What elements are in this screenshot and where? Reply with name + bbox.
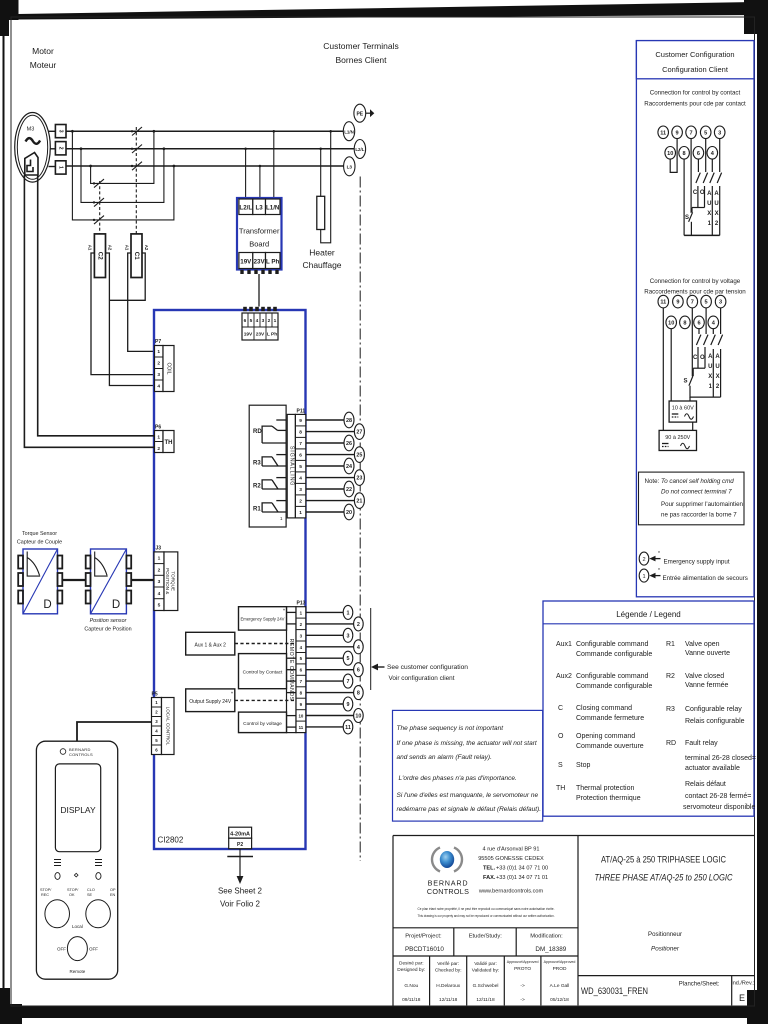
svg-text:Commande configurable: Commande configurable	[576, 683, 652, 690]
svg-text:+33 (0)1 34 07 71 00: +33 (0)1 34 07 71 00	[496, 866, 548, 872]
terminal 22	[344, 481, 354, 497]
svg-text:G.Nou: G.Nou	[404, 983, 418, 989]
svg-text:PROD: PROD	[553, 966, 567, 972]
svg-text:Raccordements pour cde par con: Raccordements pour cde par contact	[644, 101, 746, 108]
svg-text:X: X	[708, 374, 712, 380]
svg-text:2: 2	[158, 567, 161, 573]
svg-text:5: 5	[347, 656, 350, 662]
svg-text:1: 1	[158, 556, 161, 562]
svg-text:21: 21	[356, 499, 362, 505]
svg-text:6: 6	[357, 668, 360, 674]
svg-text:3: 3	[347, 633, 350, 639]
svg-text:X: X	[715, 211, 719, 217]
label Torque Sensor	[17, 531, 62, 546]
svg-text:H.Delaroux: H.Delaroux	[436, 983, 461, 989]
svg-text:10: 10	[668, 320, 674, 326]
svg-text:R2: R2	[666, 673, 675, 680]
svg-text:TH: TH	[556, 785, 565, 792]
svg-text:10: 10	[298, 713, 303, 718]
torque sensor	[18, 549, 62, 614]
svg-text:3: 3	[58, 130, 64, 133]
svg-text:A2: A2	[108, 245, 113, 251]
phase sequence note	[393, 710, 543, 821]
svg-text:POSITION &: POSITION &	[165, 568, 170, 594]
svg-text:1: 1	[347, 610, 350, 616]
svg-text:5: 5	[158, 603, 161, 609]
svg-text:->: ->	[520, 997, 525, 1003]
svg-text:A: A	[707, 191, 712, 197]
connector P5 LOCAL CONTROL	[152, 692, 175, 755]
svg-text:servomoteur disponible: servomoteur disponible	[683, 804, 755, 811]
position sensor	[86, 549, 132, 614]
svg-text:1: 1	[642, 574, 645, 580]
svg-text:P6: P6	[155, 425, 161, 431]
svg-text:24: 24	[346, 464, 352, 470]
terminal 5	[343, 651, 353, 665]
svg-text:U: U	[707, 201, 711, 207]
svg-text:Entrée alimentation de secours: Entrée alimentation de secours	[663, 575, 748, 582]
transformer pins	[240, 270, 278, 274]
svg-text:L Ph: L Ph	[267, 332, 277, 338]
svg-text:Capteur de Couple: Capteur de Couple	[17, 540, 62, 546]
svg-text:P5: P5	[152, 692, 158, 698]
svg-text:->: ->	[520, 983, 525, 989]
svg-text:95505 GONESSE CEDEX: 95505 GONESSE CEDEX	[478, 856, 544, 862]
wire sensor link	[62, 579, 85, 581]
terminal 4	[708, 316, 719, 329]
svg-text:O: O	[700, 190, 705, 196]
project row	[405, 934, 567, 954]
knob left	[40, 888, 79, 928]
svg-text:5: 5	[704, 130, 707, 136]
svg-text:Local: Local	[72, 924, 83, 929]
wire transformer L3 feed	[259, 166, 261, 198]
wire heater bottom loop	[321, 131, 331, 243]
svg-text:PE: PE	[356, 111, 363, 117]
svg-text:7: 7	[691, 300, 694, 306]
svg-text:SIGNALLING: SIGNALLING	[288, 446, 294, 486]
emergency supply terminal 1	[639, 568, 660, 582]
svg-text:ne pas raccorder la borne 7: ne pas raccorder la borne 7	[661, 512, 737, 519]
svg-text:O: O	[700, 355, 705, 361]
terminal 3	[714, 126, 725, 139]
wire C1-A2 to node	[109, 253, 145, 300]
svg-text:5: 5	[705, 300, 708, 306]
motor terminal 1	[55, 161, 66, 174]
svg-text:Aux2: Aux2	[556, 673, 572, 680]
connector J3 POSITION & TORQUE	[154, 546, 178, 611]
svg-text:9: 9	[299, 418, 302, 424]
svg-text:CLO: CLO	[87, 888, 95, 892]
terminal 10	[665, 147, 676, 160]
box Output Supply 24V	[186, 689, 296, 712]
svg-text:G.Schwebel: G.Schwebel	[473, 983, 499, 989]
contact config wiring	[670, 139, 721, 236]
svg-text:LOCAL CONTROL: LOCAL CONTROL	[165, 707, 170, 746]
svg-text:12/11/18: 12/11/18	[476, 997, 495, 1003]
svg-text:Vanne fermée: Vanne fermée	[685, 682, 729, 689]
motor terminal 3	[55, 125, 66, 138]
svg-text:4: 4	[256, 318, 259, 324]
terminal 7	[343, 674, 353, 688]
motor thermal switch symbol	[25, 153, 38, 176]
wire transformer L1/N feed	[273, 131, 275, 198]
svg-text:P7: P7	[155, 339, 161, 345]
svg-text:10 à 60V: 10 à 60V	[672, 406, 694, 412]
svg-text:2: 2	[299, 499, 302, 505]
svg-text:20: 20	[346, 510, 352, 516]
svg-text:STOP/: STOP/	[67, 888, 79, 892]
svg-text:Positionneur: Positionneur	[648, 931, 683, 938]
relay R3	[262, 455, 286, 467]
svg-text:Aux1: Aux1	[556, 641, 572, 648]
svg-text:*: *	[658, 568, 660, 574]
connector P7 COIL	[155, 339, 175, 392]
svg-text:Chauffage: Chauffage	[302, 260, 341, 270]
relay RD	[262, 420, 286, 443]
terminal PE	[354, 104, 374, 122]
svg-text:Fault relay: Fault relay	[685, 740, 718, 747]
wire position sensor to J3	[131, 579, 154, 581]
terminal 5	[700, 126, 711, 139]
svg-text:Desiné par:: Desiné par:	[399, 961, 424, 967]
svg-text:4: 4	[299, 476, 302, 482]
svg-text:Commande ouverture: Commande ouverture	[576, 743, 644, 750]
svg-text:3: 3	[157, 372, 160, 378]
contactor C2 contacts	[94, 179, 104, 233]
connector P6 TH	[155, 425, 175, 453]
svg-text:J3: J3	[156, 546, 162, 552]
supply source 90-250V	[659, 430, 696, 450]
bernard controls logo	[427, 848, 469, 897]
svg-text:C2: C2	[96, 252, 103, 260]
terminal 1	[343, 605, 353, 619]
svg-text:A.Le Gall: A.Le Gall	[550, 983, 570, 989]
svg-text:10: 10	[355, 714, 361, 720]
main board CI2802	[154, 310, 306, 849]
wire transformer L2/L feed	[245, 149, 247, 198]
display lamps	[55, 873, 60, 880]
svg-text:Configurable command: Configurable command	[576, 673, 648, 680]
svg-text:Capteur de Position: Capteur de Position	[84, 627, 131, 633]
svg-text:1: 1	[58, 166, 64, 169]
svg-text:6: 6	[299, 453, 302, 459]
emergency supply terminal 2	[639, 551, 660, 565]
svg-text:Moteur: Moteur	[30, 60, 57, 70]
signatures row	[397, 960, 575, 1003]
terminal 9	[672, 126, 683, 139]
terminal 11	[658, 126, 669, 139]
svg-text:2: 2	[58, 147, 64, 150]
relay R2	[262, 478, 286, 490]
svg-text:*: *	[658, 551, 660, 557]
svg-text:and sends an alarm (Fault rela: and sends an alarm (Fault relay).	[397, 754, 493, 761]
wires P13 to terminals	[306, 612, 354, 727]
svg-text:R2: R2	[253, 484, 261, 490]
svg-text:Heater: Heater	[309, 248, 335, 258]
svg-text:L'ordre des phases n'a pas d'i: L'ordre des phases n'a pas d'importance.	[399, 775, 517, 782]
box Control by Contact	[239, 654, 297, 693]
svg-text:R3: R3	[666, 706, 675, 713]
voltage config wiring	[663, 308, 722, 430]
svg-text:7: 7	[690, 130, 693, 136]
svg-text:5: 5	[299, 464, 302, 470]
terminal 11	[658, 295, 669, 308]
wire display to P5	[77, 722, 152, 741]
svg-text:Commande fermeture: Commande fermeture	[576, 715, 644, 722]
svg-text:TEL.: TEL.	[483, 866, 496, 872]
svg-text:3: 3	[718, 130, 721, 136]
wire crossover C	[72, 131, 173, 220]
svg-text:22: 22	[346, 487, 352, 493]
svg-text:05/12/18: 05/12/18	[550, 997, 569, 1003]
svg-text:Validé par:: Validé par:	[474, 961, 497, 967]
svg-text:Aux 1 & Aux 2: Aux 1 & Aux 2	[194, 642, 226, 648]
svg-text:Torque Sensor: Torque Sensor	[22, 531, 57, 537]
svg-text:4: 4	[357, 645, 360, 651]
svg-text:2: 2	[157, 361, 160, 367]
terminal 8	[354, 686, 364, 700]
svg-text:23V: 23V	[254, 259, 266, 266]
svg-text:6: 6	[697, 151, 700, 157]
voltage config terminals row2	[666, 316, 719, 329]
wire phase W3	[66, 165, 344, 167]
label Heater	[302, 248, 341, 271]
svg-text:4 rue d'Arsonval BP 91: 4 rue d'Arsonval BP 91	[483, 847, 540, 853]
terminal 3	[343, 628, 353, 642]
contactor C1 contacts	[132, 127, 142, 234]
relay R1	[262, 501, 286, 512]
wire C2-A1 to P7 pin3	[91, 253, 155, 375]
svg-text:Thermal protection: Thermal protection	[576, 785, 634, 792]
svg-text:Checked by:: Checked by:	[435, 968, 462, 974]
4-20mA output P2	[229, 827, 252, 849]
svg-text:Control by voltage: Control by voltage	[243, 721, 282, 727]
terminal 2	[354, 617, 364, 631]
svg-text:+33 (0)1 34 07 71 01: +33 (0)1 34 07 71 01	[496, 875, 548, 881]
svg-text:L2/L: L2/L	[355, 147, 364, 152]
svg-text:L3: L3	[255, 205, 263, 212]
legend box	[543, 601, 756, 816]
svg-text:OFF: OFF	[57, 947, 66, 952]
svg-text:OFF: OFF	[89, 947, 98, 952]
svg-text:COIL: COIL	[166, 362, 172, 374]
see sheet 2 arrow	[218, 849, 263, 909]
connector P13 REMOTE COMMANDS	[287, 601, 306, 733]
svg-text:7: 7	[299, 441, 302, 447]
svg-text:9: 9	[676, 130, 679, 136]
svg-text:25: 25	[356, 453, 362, 459]
svg-text:11: 11	[345, 725, 351, 731]
wire crossover A	[91, 131, 154, 183]
supply link	[692, 422, 694, 430]
svg-text:WD_630031_FREN: WD_630031_FREN	[581, 986, 648, 996]
junction dots	[71, 130, 175, 221]
svg-text:U: U	[715, 364, 719, 370]
svg-text:*: *	[283, 609, 285, 615]
svg-text:Note:: Note:	[645, 478, 660, 485]
svg-text:12/11/18: 12/11/18	[439, 997, 458, 1003]
svg-text:2: 2	[268, 318, 271, 324]
svg-text:Configurable command: Configurable command	[576, 641, 648, 648]
svg-text:CONTROLS: CONTROLS	[427, 887, 469, 896]
wire C1-A1 to P7 pin1	[128, 253, 155, 351]
svg-text:8: 8	[683, 320, 686, 326]
display selector icons	[54, 860, 102, 866]
svg-text:EN: EN	[110, 893, 116, 897]
svg-text:E: E	[739, 993, 745, 1003]
svg-text:Commande configurable: Commande configurable	[576, 651, 652, 658]
svg-text:See customer configuration: See customer configuration	[387, 664, 468, 671]
terminal 20	[344, 504, 354, 520]
wire phase W2	[66, 148, 354, 150]
svg-text:Etude/Study:: Etude/Study:	[469, 934, 503, 940]
svg-text:Remote: Remote	[70, 969, 86, 974]
svg-text:28: 28	[346, 418, 352, 424]
svg-text:A: A	[708, 354, 713, 360]
svg-text:Ind./Rev.:: Ind./Rev.:	[731, 981, 755, 987]
svg-text:See Sheet 2: See Sheet 2	[218, 887, 263, 896]
svg-text:Raccordements pour cde par ten: Raccordements pour cde par tension	[644, 289, 746, 296]
svg-text:Connection for control by volt: Connection for control by voltage	[650, 278, 741, 285]
svg-text:U: U	[714, 201, 718, 207]
svg-text:26: 26	[346, 441, 352, 447]
wire motor to boxes	[49, 131, 56, 166]
svg-text:X: X	[707, 211, 711, 217]
svg-text:6: 6	[697, 320, 700, 326]
svg-text:Positioner: Positioner	[651, 946, 680, 953]
svg-text:redémarre pas et signale le dé: redémarre pas et signale le défaut (Rela…	[397, 806, 542, 813]
svg-text:23: 23	[356, 476, 362, 482]
svg-text:Stop: Stop	[576, 762, 591, 769]
svg-text:Bornes Client: Bornes Client	[335, 55, 387, 65]
svg-text:RD: RD	[666, 740, 676, 747]
svg-text:3: 3	[158, 579, 161, 585]
terminal 21	[354, 493, 364, 509]
label Customer Terminals	[323, 41, 398, 65]
svg-text:L1/N: L1/N	[266, 205, 280, 212]
svg-text:TORQUE: TORQUE	[170, 571, 175, 591]
svg-text:8: 8	[299, 430, 302, 436]
svg-text:Planche/Sheet:: Planche/Sheet:	[679, 982, 720, 988]
svg-text:10: 10	[667, 151, 673, 157]
terminal 5	[701, 295, 712, 308]
svg-text:OK: OK	[69, 893, 75, 897]
contact config terminals row1	[658, 126, 725, 139]
terminal 7	[687, 295, 698, 308]
svg-text:SE: SE	[87, 893, 93, 897]
svg-text:Configurable relay: Configurable relay	[685, 706, 742, 713]
svg-text:CI2802: CI2802	[158, 836, 184, 845]
terminal 9	[343, 697, 353, 711]
box Control by voltage	[239, 712, 297, 733]
svg-text:Motor: Motor	[32, 46, 54, 56]
svg-text:3: 3	[719, 300, 722, 306]
svg-text:8: 8	[357, 691, 360, 697]
supply source 10-60V	[669, 401, 696, 422]
svg-text:A: A	[715, 354, 720, 360]
motor terminal 2	[55, 142, 66, 155]
svg-text:L2/L: L2/L	[239, 205, 252, 212]
svg-text:C: C	[693, 190, 698, 196]
svg-text:2: 2	[642, 557, 645, 563]
svg-text:S: S	[683, 379, 687, 385]
company address	[478, 847, 548, 895]
svg-text:AT/AQ-25 à 250 TRIPHASEE LOGIC: AT/AQ-25 à 250 TRIPHASEE LOGIC	[601, 855, 726, 865]
terminal 8	[679, 147, 690, 160]
box Aux 1 & Aux 2	[186, 632, 296, 655]
svg-text:Protection thermique: Protection thermique	[576, 795, 641, 802]
svg-text:11: 11	[660, 300, 666, 306]
svg-text:PBCDT16010: PBCDT16010	[405, 946, 444, 953]
terminal 9	[673, 295, 684, 308]
svg-text:Pour supprimer l'automaintien: Pour supprimer l'automaintien	[661, 501, 744, 508]
svg-text:R3: R3	[253, 461, 261, 467]
svg-text:2: 2	[157, 446, 160, 452]
svg-text:C1: C1	[133, 252, 140, 260]
knob selector	[57, 924, 98, 974]
svg-text:Transformer: Transformer	[239, 227, 280, 236]
terminal L1/N	[343, 122, 354, 141]
wires P11 to terminals	[306, 420, 355, 512]
dash-dot boundary line	[359, 177, 361, 862]
svg-text:Vanne ouverte: Vanne ouverte	[685, 650, 730, 657]
svg-text:O: O	[558, 733, 564, 740]
svg-text:Position sensor: Position sensor	[90, 618, 127, 624]
svg-text:RD: RD	[253, 429, 262, 435]
terminal 7	[686, 126, 697, 139]
terminal 4	[707, 147, 718, 160]
svg-text:THREE PHASE AT/AQ-25 to 250 LO: THREE PHASE AT/AQ-25 to 250 LOGIC	[595, 873, 733, 883]
svg-text:The phase sequency is not impo: The phase sequency is not important	[397, 725, 505, 732]
svg-text:C: C	[558, 705, 563, 712]
svg-text:Board: Board	[249, 240, 269, 249]
svg-text:actuator available: actuator available	[685, 765, 740, 772]
voltage config terminals row1	[658, 295, 726, 308]
terminal 27	[354, 424, 364, 440]
svg-text:4-20mA: 4-20mA	[230, 831, 250, 837]
svg-text:Do not connect terminal 7: Do not connect terminal 7	[661, 489, 732, 496]
svg-text:1: 1	[157, 349, 160, 355]
svg-text:Customer Configuration: Customer Configuration	[655, 50, 734, 59]
svg-text:5: 5	[250, 318, 253, 324]
svg-text:If one phase is missing, the a: If one phase is missing, the actuator wi…	[397, 740, 538, 747]
wire motor thermal 2	[24, 175, 154, 447]
svg-text:Output Supply 24V: Output Supply 24V	[189, 699, 232, 705]
svg-text:Opening command: Opening command	[576, 733, 635, 740]
svg-text:Verifé par:: Verifé par:	[437, 961, 459, 967]
svg-text:A1: A1	[88, 245, 93, 251]
svg-text:Configuration Client: Configuration Client	[662, 65, 729, 74]
terminal 8	[680, 316, 691, 329]
svg-text:9: 9	[676, 300, 679, 306]
svg-text:1: 1	[274, 318, 277, 324]
note self holding	[639, 472, 745, 525]
terminal 6	[694, 316, 705, 329]
svg-text:Valve closed: Valve closed	[685, 673, 724, 680]
svg-text:Approuvé/Approved: Approuvé/Approved	[544, 960, 576, 964]
contactor coil C1	[124, 234, 149, 278]
label Motor	[30, 46, 57, 70]
svg-text:P11: P11	[297, 409, 306, 415]
svg-text:FAX.: FAX.	[483, 875, 496, 881]
terminal 10	[354, 709, 364, 723]
terminal 26	[344, 435, 354, 451]
svg-text:11: 11	[660, 130, 666, 136]
motor M3	[15, 113, 51, 183]
terminal 3	[715, 295, 726, 308]
board supply strip terminal	[242, 313, 278, 340]
